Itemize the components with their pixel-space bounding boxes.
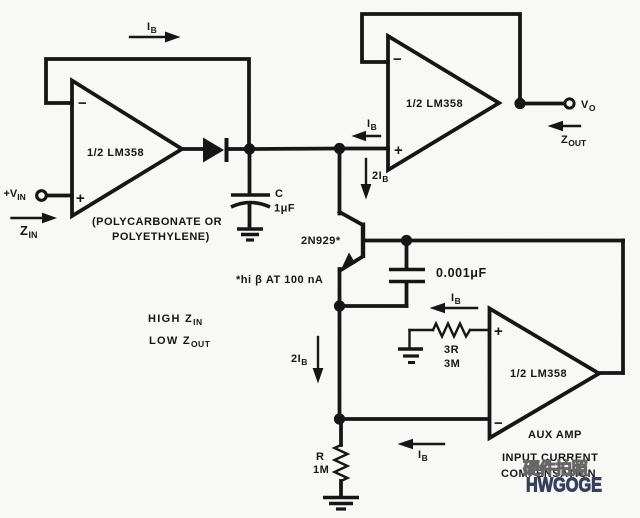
arrow 2IB down from junction A <box>361 159 389 200</box>
arrow IB from U3 - input <box>398 439 445 463</box>
wire node to junction A <box>249 147 339 151</box>
wire U2 output to VO <box>520 102 564 106</box>
diode D1 <box>182 138 249 163</box>
node junction A <box>334 143 345 154</box>
arrow IB into junction A <box>352 118 381 141</box>
wire node B to C2 bottom <box>340 304 407 308</box>
node C <box>334 413 345 424</box>
node output of U1/diode <box>244 143 255 154</box>
terminal +VIN <box>4 188 73 202</box>
capacitor C2 0.001uF <box>389 241 487 307</box>
op-amp U3 (1/2 LM358 aux amp) <box>490 309 600 439</box>
wire U1 feedback loop <box>46 59 249 147</box>
arrow ZOUT <box>548 121 587 148</box>
op-amp U1 (1/2 LM358 top-left) <box>72 81 182 217</box>
wire Q1 emitter down to node B <box>338 269 342 306</box>
wire right rail down <box>621 241 625 374</box>
arrow IB into U3 + input <box>430 292 478 313</box>
transistor Q1 2N929 <box>301 212 407 271</box>
resistor R2 3R 3M <box>410 324 490 371</box>
node output U2 <box>514 98 525 109</box>
wire base node to right rail <box>407 239 624 243</box>
arrow ZIN <box>12 213 58 240</box>
wire junction A to U2 + input <box>339 147 388 151</box>
node base junction <box>401 235 412 246</box>
ground below C <box>237 229 263 240</box>
wire junction A down to Q1 collector <box>338 149 342 214</box>
capacitor C 1uF <box>231 149 295 228</box>
wire right rail to U3 output <box>597 371 623 375</box>
wire U2 feedback loop <box>362 14 520 102</box>
terminal VO <box>565 99 596 113</box>
op-amp U2 (1/2 LM358 top-right) <box>388 36 499 170</box>
node B (emitter junction) <box>334 300 345 311</box>
wire node B down to node C <box>338 306 342 419</box>
label polycarbonate note <box>92 216 222 243</box>
ground at R2 <box>398 330 423 363</box>
arrow 2IB down (emitter current) <box>291 337 323 384</box>
wire node C to U3 - input <box>340 417 490 421</box>
resistor R1 R 1M <box>313 419 348 496</box>
ground below R1 <box>323 498 359 510</box>
arrow IB top (feedback current) <box>130 21 181 43</box>
